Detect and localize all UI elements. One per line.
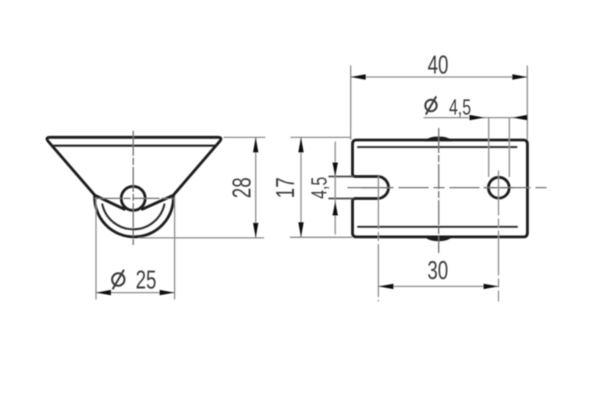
dimension O4,5 hole: left arrow pointing right bbox=[470, 115, 485, 120]
left view: vertical centerline bbox=[132, 131, 134, 244]
left view: wheel outer arc bbox=[95, 195, 174, 236]
right view: vertical centerline bbox=[438, 129, 440, 253]
right view: slot center line / 30 dim left extension bbox=[377, 177, 379, 302]
dimension O25: right arrow bbox=[160, 290, 175, 295]
right view: axle rivet bump top bbox=[425, 137, 452, 142]
dimension 4,5 slot: upper arrow pointing down bbox=[333, 163, 338, 177]
dimension O4,5 hole: left extension line bbox=[488, 118, 490, 177]
dimension 40: right arrow bbox=[512, 74, 527, 79]
left view: wheel inner tread arc bbox=[102, 204, 164, 229]
dimension 40: left arrow bbox=[351, 74, 366, 79]
dimension 28: bottom arrow bbox=[253, 223, 258, 238]
dimension 28: dimension line bbox=[255, 137, 257, 238]
right view: slot cap crosshair segment bbox=[362, 187, 391, 189]
dimension 17: dimension line bbox=[300, 137, 302, 237]
dimension 4,5 slot: lower arrow pointing up bbox=[333, 202, 338, 216]
dimension 4,5 slot: dimension line bbox=[334, 142, 336, 234]
right view: horizontal centerline bbox=[348, 187, 547, 189]
dimension O4,5 hole: diameter symbol bbox=[425, 97, 436, 114]
dimension O25: right extension line bbox=[174, 198, 176, 299]
dimension 30: left arrow bbox=[378, 284, 393, 289]
svg-text:28: 28 bbox=[227, 177, 257, 198]
svg-text:4,5: 4,5 bbox=[449, 94, 471, 119]
left view: plate underside line bbox=[54, 145, 215, 147]
right view: hole crosshair segment bbox=[484, 187, 514, 189]
right view: hole center line / 30 dim right extension bbox=[498, 171, 500, 301]
right view: top fold line bbox=[358, 146, 517, 148]
dimension O25: left arrow bbox=[96, 290, 111, 295]
right view: mounting hole bbox=[488, 177, 509, 198]
dimension O4,5 hole: dimension line bbox=[424, 117, 527, 119]
extension line: plate top to 28 dim bbox=[224, 136, 265, 138]
svg-text:25: 25 bbox=[136, 265, 157, 295]
svg-text:30: 30 bbox=[427, 255, 448, 285]
right view: bottom fold line bbox=[358, 226, 517, 228]
dimension 30: dimension line bbox=[378, 285, 498, 287]
dimension O25: diameter symbol bbox=[112, 270, 124, 288]
right view: axle rivet bump bottom bbox=[425, 236, 452, 241]
dimension 28: top arrow bbox=[253, 137, 258, 152]
dimension O4,5 hole: right extension line bbox=[508, 118, 510, 177]
svg-text:4,5: 4,5 bbox=[306, 177, 331, 199]
left view: axle hub circle bbox=[121, 186, 145, 210]
dimension 40: right extension line bbox=[526, 66, 528, 139]
dimension 30: right arrow bbox=[484, 284, 499, 289]
svg-text:40: 40 bbox=[428, 50, 449, 80]
dimension 17: bottom arrow bbox=[298, 222, 303, 237]
dimension 4,5 slot: bottom extension line bbox=[329, 198, 354, 200]
dimension 4,5 slot: top extension line bbox=[329, 176, 354, 178]
dimension O4,5 hole: right arrow pointing left bbox=[513, 115, 528, 120]
right view: plate outline with slot mouth bbox=[353, 140, 528, 237]
extension line: wheel bottom tangent bbox=[139, 237, 264, 239]
dimension 17: bottom extension line bbox=[290, 236, 352, 238]
dimension 40: dimension line bbox=[351, 76, 528, 78]
left view: bracket plate top edge and slant legs bbox=[47, 137, 221, 209]
dimension 17: top arrow bbox=[298, 137, 303, 152]
dimension 40: left extension line bbox=[350, 66, 352, 139]
svg-text:17: 17 bbox=[270, 177, 300, 198]
dimension 17: top extension line bbox=[291, 136, 351, 138]
left view: horizontal centerline bbox=[95, 197, 175, 199]
dimension O25: left extension line bbox=[95, 198, 97, 299]
dimension O25: dimension line bbox=[96, 292, 175, 294]
